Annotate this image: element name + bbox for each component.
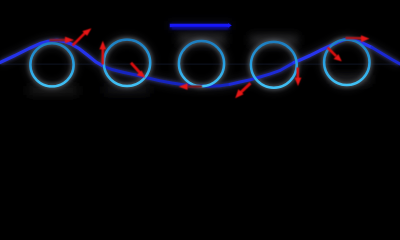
phase bar (wavelength/propagation indicator) [170,23,232,29]
red arrow R5 (trough, pointing left) [179,83,202,90]
mean water level line [0,63,400,65]
red arrow R9 (crest 2, pointing right) [346,35,370,42]
gray compression halo layer [0,21,400,88]
red arrow R4 (down-right, inside circle 2) [131,63,145,78]
gray artifact patches [28,34,370,95]
red arrow R8 (down-right, inside circle 5 top) [328,48,342,62]
circle 1 [30,43,73,86]
tight gray fringe layer [0,39,400,88]
red arrow R6 (down-left, below wave between circles 3-4) [235,83,250,98]
red arrow R3 (vertical up, left rim of circle 2) [99,41,106,65]
circle 4 [251,42,297,88]
red arrow R7 (vertical down, right rim of circle 4) [295,68,302,87]
red arrow R1 (crest 1, pointing right) [50,37,75,44]
circle 3 [179,41,224,86]
red arrow R2 (up-right, right of crest 1) [73,28,92,45]
circle 2 [104,40,150,86]
circle 5 [324,40,369,85]
soft colored glow layer [0,23,400,88]
wave (surface) [0,39,400,86]
